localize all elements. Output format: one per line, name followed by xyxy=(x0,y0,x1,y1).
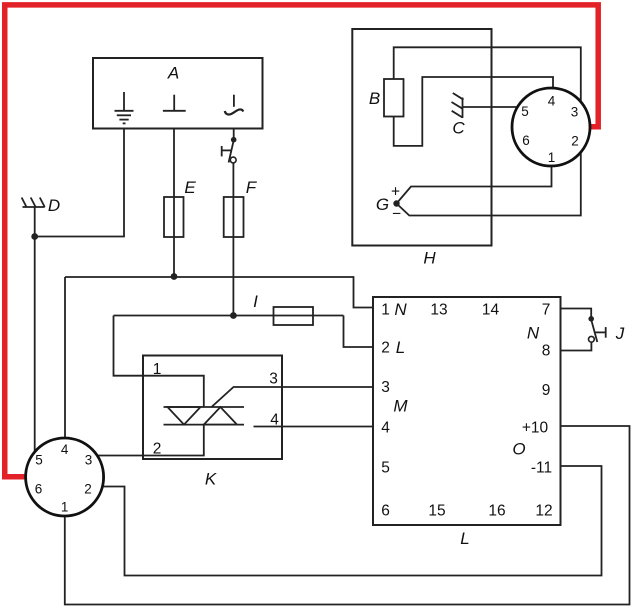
svg-text:1: 1 xyxy=(153,361,162,378)
wire B bottom to X2 pin4 xyxy=(394,77,553,146)
svg-text:M: M xyxy=(393,397,408,416)
svg-text:-11: -11 xyxy=(531,460,552,477)
svg-text:16: 16 xyxy=(488,503,505,520)
svg-text:G: G xyxy=(376,195,389,214)
svg-text:2: 2 xyxy=(381,340,390,357)
svg-text:7: 7 xyxy=(542,302,551,319)
svg-text:−: − xyxy=(392,206,401,223)
wire node D down to connector X1 pin5 xyxy=(34,207,36,452)
svg-text:9: 9 xyxy=(542,382,551,399)
svg-text:3: 3 xyxy=(571,105,579,120)
svg-text:H: H xyxy=(423,249,436,268)
svg-text:4: 4 xyxy=(61,442,69,457)
svg-text:4: 4 xyxy=(381,420,390,437)
svg-text:I: I xyxy=(253,292,258,311)
wire B top / loop to G minus xyxy=(394,47,581,215)
fuse E xyxy=(164,197,184,237)
wire switch J to L pin8 xyxy=(561,342,592,350)
wire C to X2 pin5 xyxy=(463,106,518,108)
svg-text:3: 3 xyxy=(85,453,93,468)
svg-text:6: 6 xyxy=(381,503,390,520)
contact symbol in A xyxy=(225,95,244,115)
wire pushbutton to fuse F and node I xyxy=(232,163,234,316)
svg-text:2: 2 xyxy=(84,482,92,497)
connector X2 (top) xyxy=(512,88,590,166)
svg-text:E: E xyxy=(184,178,196,197)
wire node I down to K pin 1 xyxy=(114,316,204,408)
junction node at D xyxy=(31,233,38,240)
svg-text:1: 1 xyxy=(548,150,556,165)
fuse I xyxy=(274,307,314,325)
triac symbol in K xyxy=(164,407,245,425)
box K xyxy=(143,356,282,460)
svg-text:O: O xyxy=(512,440,525,459)
wire L pin7 to switch J xyxy=(561,309,592,317)
box L xyxy=(373,297,561,525)
svg-text:N: N xyxy=(394,300,407,319)
fuse F xyxy=(224,197,244,237)
svg-text:D: D xyxy=(48,196,60,215)
connector X1 (bottom left) xyxy=(26,438,104,516)
wire node E branch to connector X1 pin4 xyxy=(64,277,66,438)
box A xyxy=(93,58,263,129)
earth ground symbol in A xyxy=(115,92,134,123)
junction node I xyxy=(230,312,237,319)
pushbutton switch (above F) xyxy=(222,137,237,163)
svg-text:5: 5 xyxy=(521,104,529,119)
chassis ground D xyxy=(22,198,45,208)
svg-text:B: B xyxy=(369,89,380,108)
svg-text:13: 13 xyxy=(430,302,447,319)
svg-text:2: 2 xyxy=(571,134,579,149)
svg-text:2: 2 xyxy=(153,441,162,458)
svg-text:1: 1 xyxy=(61,500,69,515)
neutral terminal symbol in A xyxy=(163,95,186,111)
pushbutton switch J xyxy=(588,316,605,342)
svg-text:J: J xyxy=(615,324,625,343)
svg-text:3: 3 xyxy=(269,371,278,388)
wire L +10 to connector X1 pin1 xyxy=(65,426,630,605)
red wire (mains feed) xyxy=(5,5,598,477)
wire K gate pin 3 to L pin 3 xyxy=(212,387,374,407)
svg-text:6: 6 xyxy=(35,482,43,497)
svg-text:F: F xyxy=(246,178,258,197)
svg-text:+10: +10 xyxy=(522,420,549,437)
svg-text:12: 12 xyxy=(535,503,552,520)
svg-text:15: 15 xyxy=(428,503,445,520)
svg-text:5: 5 xyxy=(35,453,43,468)
svg-text:14: 14 xyxy=(482,302,500,319)
wire fuse I to L pin 2 xyxy=(344,316,374,348)
svg-text:8: 8 xyxy=(542,343,551,360)
svg-text:A: A xyxy=(167,64,179,83)
wire connector X1 pin3 to K pin 2 xyxy=(97,425,204,456)
wire A pin3 to pushbutton xyxy=(233,129,235,142)
svg-text:N: N xyxy=(527,324,540,343)
capacitor / chassis symbol C xyxy=(452,93,464,118)
resistor B xyxy=(384,79,404,117)
svg-text:3: 3 xyxy=(381,379,390,396)
svg-text:C: C xyxy=(452,119,465,138)
svg-text:4: 4 xyxy=(548,94,556,109)
wire K pin 4 to L pin 4 xyxy=(254,426,374,428)
battery G xyxy=(391,184,401,223)
svg-text:1: 1 xyxy=(381,302,390,319)
svg-text:K: K xyxy=(205,470,217,489)
svg-text:6: 6 xyxy=(522,133,530,148)
wire L -11 to connector X1 pin2 xyxy=(102,466,601,576)
wire node I left and through fuse I to corner xyxy=(114,315,344,317)
wire node E to L pin 1 xyxy=(65,277,373,308)
junction node E xyxy=(171,273,178,280)
wire G plus to X2 pin1 xyxy=(397,166,552,204)
svg-text:+: + xyxy=(391,184,400,201)
svg-text:L: L xyxy=(460,529,469,548)
wire A pin2 to fuse E and node xyxy=(173,129,175,277)
wire A pin1 to node D xyxy=(35,129,124,237)
svg-text:5: 5 xyxy=(381,460,390,477)
svg-text:L: L xyxy=(396,338,405,357)
box H xyxy=(352,29,491,246)
